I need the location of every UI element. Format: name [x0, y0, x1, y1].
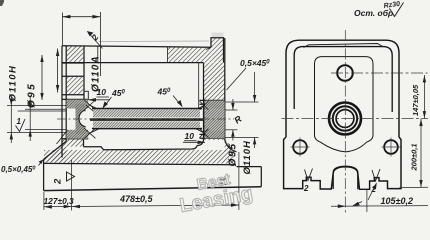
dim line Ø95 right — [232, 99, 234, 110]
svg-text:Ø110H: Ø110H — [242, 140, 253, 175]
leader 2 (chamfer) — [89, 34, 103, 49]
dim flange vertical line — [57, 49, 59, 93]
finish mark right foot — [372, 169, 380, 181]
dim line 200 — [420, 119, 422, 188]
ext lines Ø110H right — [225, 101, 259, 103]
right wall to base fillet — [225, 140, 237, 152]
seat verticals — [70, 99, 72, 108]
base plate bottom edge — [44, 187, 262, 191]
left chamfer X bottom — [84, 128, 95, 138]
second contour — [294, 47, 392, 112]
seat middle band — [76, 104, 86, 134]
svg-text:Ø95: Ø95 — [228, 142, 239, 166]
leader arrow 105 — [353, 202, 362, 206]
dim Ø110A extension left — [61, 13, 63, 46]
right chamfer X top — [200, 101, 209, 110]
right chamfer X bottom — [200, 129, 209, 138]
dim Ø110A arrows — [62, 15, 70, 19]
svg-text:0,5×450: 0,5×450 — [240, 58, 270, 68]
base foot hatch wedge — [44, 142, 66, 162]
svg-text:147±0,05: 147±0,05 — [411, 84, 420, 116]
axis centerline left view — [57, 118, 234, 120]
dim line Ø110H left — [10, 95, 12, 143]
dim line Ø110H right — [254, 72, 256, 102]
top opening right edge — [167, 47, 169, 63]
tube gray backing — [93, 109, 200, 128]
dim line 147 — [423, 75, 425, 119]
svg-text:10: 10 — [97, 87, 107, 97]
seat bottom edge — [66, 134, 88, 136]
svg-text:2: 2 — [53, 178, 64, 185]
main bore inner ring — [336, 110, 354, 128]
left side hole — [293, 140, 307, 154]
tube lower hatch — [93, 122, 200, 128]
ink blot — [219, 178, 228, 185]
bolt hole upper edge — [62, 62, 84, 64]
flange step edge — [84, 91, 88, 99]
flange outer face — [61, 46, 63, 158]
main bore middle ring — [333, 106, 357, 130]
right bore cone lines — [191, 105, 205, 133]
bottom wall hatch band — [44, 150, 234, 164]
arrow 10 top — [89, 99, 111, 101]
dim Ø110A line — [62, 16, 100, 18]
flange mid hatch block — [67, 77, 83, 95]
top wall shadow line — [99, 40, 209, 43]
top wall outer edge — [62, 46, 211, 48]
main bore outer ring — [329, 103, 361, 135]
dim 105 line — [331, 205, 428, 208]
flange inner face / cavity left edge — [83, 46, 85, 100]
centerlines right view — [282, 30, 429, 214]
right wall inner face — [197, 63, 204, 146]
svg-text:Ø95: Ø95 — [27, 82, 38, 108]
bolt hole lower edge — [62, 75, 84, 77]
ext lines Ø110H left — [7, 105, 66, 107]
ext line 127 left — [43, 192, 45, 210]
dim Ø110A extension right — [99, 12, 101, 76]
flange face inner line — [65, 46, 67, 142]
block step to wall — [206, 47, 211, 49]
svg-text:2: 2 — [303, 184, 309, 193]
right wall hatch — [204, 63, 225, 140]
svg-text:0,5×0,450: 0,5×0,450 — [1, 165, 35, 174]
block step shadow — [212, 33, 224, 38]
right seat middle backing — [205, 109, 225, 131]
cavity rib diagonal — [57, 130, 68, 144]
top wall inner edge — [62, 62, 204, 64]
tube bottom edge — [92, 128, 202, 130]
outer contour — [284, 40, 401, 189]
dim line Ø95 left — [29, 97, 31, 141]
svg-text:478±0,5: 478±0,5 — [119, 194, 153, 204]
svg-text:1: 1 — [17, 117, 22, 126]
seat top edge — [62, 98, 88, 100]
svg-text:105±0,2: 105±0,2 — [381, 196, 413, 206]
top-right block — [211, 38, 224, 63]
top hole — [337, 65, 353, 81]
base plate top step (right of wall) — [237, 166, 262, 168]
flange top hatch block — [67, 46, 83, 62]
base foot left edge — [43, 159, 45, 190]
seat long diagonal — [86, 105, 113, 128]
top opening left edge — [97, 46, 99, 63]
dim line bottom — [44, 205, 239, 207]
bottom wall band top edge (cavity floor) — [84, 146, 198, 150]
svg-text:127±0,3: 127±0,3 — [44, 196, 75, 206]
svg-text:Ø110H: Ø110H — [7, 65, 18, 102]
ext line 478 right — [238, 152, 240, 210]
dim line bolt circle — [41, 55, 43, 100]
flange lower hatch — [62, 139, 84, 152]
left bore cone lines — [88, 105, 104, 134]
base plate right edge — [260, 167, 262, 187]
scan corner mark — [0, 0, 4, 6]
tube axis dark band — [90, 118, 203, 121]
ext lines Ø95 right — [225, 109, 238, 111]
ext line 127/478 shared — [71, 160, 73, 211]
base foot chamfer diagonal — [44, 141, 67, 159]
seat bore arc — [79, 111, 86, 127]
top boss line — [304, 44, 383, 48]
svg-text:10: 10 — [185, 131, 195, 141]
right side hole — [384, 140, 398, 154]
ext line below right foot — [366, 190, 368, 213]
ext line seat top left — [18, 110, 66, 112]
svg-text:200±0,1: 200±0,1 — [410, 143, 419, 171]
inner face contour — [315, 57, 374, 152]
ext lines Ø95 left — [25, 108, 66, 110]
ext line bottom for 200 — [400, 186, 429, 188]
left chamfer X top — [84, 100, 95, 110]
right wall inner second line — [198, 63, 200, 122]
finish mark left foot — [305, 169, 313, 181]
bottom wall band bottom edge — [44, 163, 236, 164]
top wall hatch (right segment) — [168, 47, 212, 63]
tube top edge — [92, 108, 202, 110]
arch re-stroke — [333, 167, 358, 190]
right wall outer face — [224, 38, 226, 140]
tube upper hatch — [93, 109, 200, 117]
